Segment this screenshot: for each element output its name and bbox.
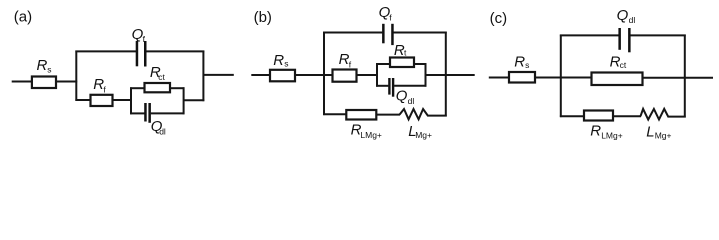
wire c-RLMg-to-inductor [613,115,641,117]
wire a-block-to-right-vertical [184,99,205,101]
svg-text:dl: dl [159,127,166,137]
label Rs (a) [37,57,52,74]
wire c-left-vertical [560,35,562,118]
capacitor Qdl (a) [144,103,151,123]
label Rs (c) [514,53,529,70]
svg-text:t: t [404,48,407,58]
wire c-input [489,77,510,79]
wire b-top-rail-left [323,32,382,34]
svg-text:s: s [284,58,288,68]
wire b-block-right-vertical [425,63,427,87]
wire a-Rs-to-node [56,81,77,83]
inductor LMg (c) [641,109,686,120]
svg-text:R: R [590,123,601,140]
label Qdl (b) [396,87,415,106]
svg-text:R: R [37,57,48,74]
svg-text:(b): (b) [254,9,272,26]
svg-text:ct: ct [620,60,627,70]
svg-text:ct: ct [158,72,165,82]
capacitor Qf (b) [382,24,394,45]
resistor RLMg (b) [346,110,376,120]
wire a-output [203,74,233,76]
resistor Rt (b) [390,58,414,68]
label Rt (b) [394,42,407,59]
wire a-right-vertical [202,51,204,102]
resistor Rs (b) [270,70,295,82]
svg-text:L: L [646,124,654,141]
resistor Rf (a) [91,95,113,106]
resistor Rs (c) [509,72,535,83]
label LMg (b) [408,123,432,140]
label Rf (b) [339,51,352,70]
svg-text:s: s [47,64,51,74]
svg-text:f: f [389,12,392,22]
svg-text:Mg+: Mg+ [415,130,432,140]
panel label (c) [490,10,508,27]
svg-text:f: f [349,60,352,70]
svg-text:dl: dl [408,96,415,106]
svg-text:R: R [514,53,525,70]
wire b-block-top-rail-right [414,63,427,65]
resistor Rs (a) [32,77,56,89]
wire b-input [251,74,271,76]
svg-text:R: R [273,52,284,69]
wire a-block-right-vertical [183,87,185,114]
wire a-top-rail-right [146,50,205,52]
inductor LMg (b) [400,109,447,119]
label Qf (b) [379,4,393,22]
wire c-top-rail-left [560,34,619,36]
wire b-Rf-to-block [357,74,378,76]
wire b-bottom-rail-left [323,113,347,115]
wire b-block-top-rail-left [376,63,390,65]
resistor RLMg (c) [584,111,613,121]
wire b-block-bottom-rail-left [376,85,388,87]
svg-text:Q: Q [617,7,629,24]
wire b-block-left-vertical [376,63,378,87]
wire b-left-vertical [323,32,325,116]
wire c-Rs-to-Rct [535,77,592,79]
wire a-block-bottom-rail-right [151,112,185,114]
svg-text:(a): (a) [14,9,32,26]
svg-text:Q: Q [396,87,408,104]
label RLMg (c) [590,123,623,141]
label Qf (a) [132,26,146,44]
wire b-top-rail-right [393,32,446,34]
wire a-block-bottom-rail-left [130,112,144,114]
wire a-Rf-to-block [113,99,132,101]
svg-text:Mg+: Mg+ [655,131,672,141]
svg-text:f: f [103,84,106,94]
label Qdl (a) [151,118,166,137]
panel label (a) [14,9,32,26]
label LMg (c) [646,124,671,141]
capacitor Qf (a) [136,41,147,67]
wire c-right-vertical [684,35,686,118]
resistor Rct (a) [145,83,171,92]
label RLMg (b) [351,121,382,140]
label Rf (a) [93,76,106,95]
wire b-RLMg-to-inductor [376,114,400,116]
label Rct (a) [150,64,166,82]
resistor Rct (c) [592,73,643,86]
wire b-output [426,74,475,76]
capacitor Qdl (c) [618,28,630,52]
svg-text:LMg+: LMg+ [601,131,623,141]
resistor Rf (b) [333,70,357,82]
label Qdl (c) [617,7,636,25]
wire a-block-left-vertical [130,87,132,114]
label Rs (b) [273,52,288,69]
svg-text:dl: dl [629,15,636,25]
wire c-output [643,77,714,79]
capacitor Qdl (b) [388,78,394,97]
panel label (b) [254,9,272,26]
wire a-block-top-rail-right [170,87,185,89]
svg-text:s: s [525,60,529,70]
wire a-top-rail-left [75,50,136,52]
wire a-block-top-rail-left [130,87,145,89]
wire a-bottom-rail-left [75,99,90,101]
wire c-top-rail-right [630,34,686,36]
wire b-block-bottom-rail-right [394,85,426,87]
svg-text:(c): (c) [490,10,508,27]
wire b-Rs-to-node [295,74,325,76]
svg-text:LMg+: LMg+ [360,130,382,140]
wire b-Rf-wire [295,74,333,76]
wire a-left-vertical [75,51,77,101]
wire a-input [12,81,32,83]
wire b-right-vertical [445,32,447,117]
label Rct (c) [610,53,627,70]
wire c-bottom-rail-left [560,115,585,117]
